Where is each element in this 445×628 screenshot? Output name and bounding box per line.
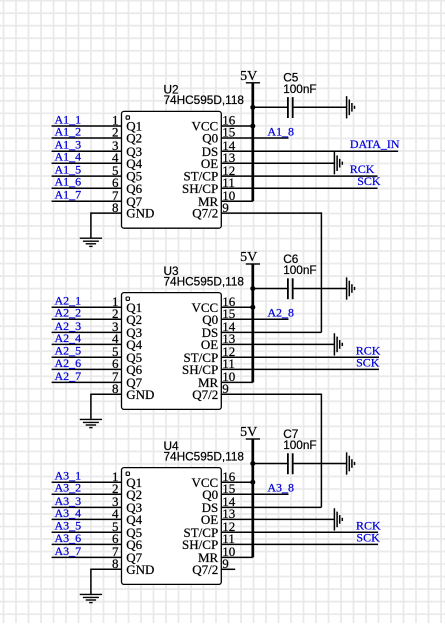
svg-text:8: 8 <box>112 381 119 396</box>
svg-text:A1_4: A1_4 <box>55 150 82 164</box>
svg-text:A1_2: A1_2 <box>55 124 82 138</box>
svg-text:100nF: 100nF <box>283 438 316 452</box>
svg-text:A3_4: A3_4 <box>55 506 82 520</box>
svg-text:SCK: SCK <box>357 174 381 188</box>
svg-text:GND: GND <box>126 206 154 221</box>
svg-text:74HC595D,118: 74HC595D,118 <box>164 449 245 463</box>
svg-text:100nF: 100nF <box>283 263 316 277</box>
svg-text:GND: GND <box>126 387 154 402</box>
svg-text:A3_7: A3_7 <box>55 544 82 558</box>
svg-text:A2_2: A2_2 <box>55 306 82 320</box>
svg-text:5V: 5V <box>240 250 257 265</box>
svg-text:A1_7: A1_7 <box>55 188 82 202</box>
svg-text:A3_6: A3_6 <box>55 531 82 545</box>
svg-text:8: 8 <box>112 556 119 571</box>
svg-text:SCK: SCK <box>356 530 380 544</box>
svg-text:DATA_IN: DATA_IN <box>350 137 400 151</box>
svg-text:Q7/2: Q7/2 <box>192 562 218 577</box>
svg-text:SCK: SCK <box>356 355 380 369</box>
svg-text:A1_6: A1_6 <box>55 175 82 189</box>
svg-text:A2_6: A2_6 <box>55 356 82 370</box>
svg-text:A2_7: A2_7 <box>55 369 82 383</box>
svg-text:A3_2: A3_2 <box>55 481 82 495</box>
svg-text:GND: GND <box>126 562 154 577</box>
svg-text:A2_4: A2_4 <box>55 331 82 345</box>
svg-text:8: 8 <box>112 200 119 215</box>
svg-text:A2_8: A2_8 <box>267 306 294 320</box>
svg-text:5V: 5V <box>240 425 257 440</box>
svg-text:A3_8: A3_8 <box>267 481 294 495</box>
svg-text:74HC595D,118: 74HC595D,118 <box>164 274 245 288</box>
svg-text:100nF: 100nF <box>283 82 316 96</box>
svg-text:Q7/2: Q7/2 <box>192 206 218 221</box>
svg-text:5V: 5V <box>240 69 257 84</box>
svg-text:74HC595D,118: 74HC595D,118 <box>164 93 245 107</box>
svg-text:Q7/2: Q7/2 <box>192 387 218 402</box>
svg-text:A1_8: A1_8 <box>267 125 294 139</box>
